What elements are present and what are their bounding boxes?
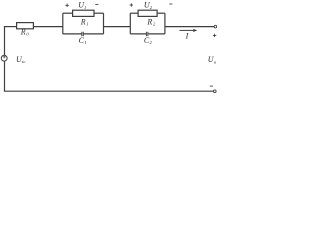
wire block1 to block2 <box>104 26 131 28</box>
svg-text:R: R <box>146 17 152 26</box>
svg-text:1: 1 <box>86 22 88 27</box>
wire left rail lower <box>4 61 6 91</box>
wire bottom branch2 left <box>130 33 146 35</box>
wire bottom branch right <box>84 33 104 35</box>
resistor R1 <box>73 10 94 16</box>
node: block2 left edge <box>129 13 131 34</box>
wire left rail upper <box>4 27 6 56</box>
wire R0 to block1 <box>33 26 62 28</box>
node: block1 left edge <box>62 13 64 34</box>
capacitor C1 <box>82 32 84 36</box>
label - (U2) <box>169 3 172 5</box>
voltage source Usc <box>1 55 7 61</box>
wire bottom branch left <box>63 33 82 35</box>
bottom wire <box>4 90 214 92</box>
wire top branch right <box>94 12 104 14</box>
svg-text:R: R <box>80 17 86 26</box>
svg-text:2: 2 <box>153 22 156 27</box>
terminal bottom right <box>214 90 217 93</box>
label + output <box>213 34 216 37</box>
svg-text:1: 1 <box>84 5 86 10</box>
label + (U1) <box>65 4 68 7</box>
svg-text:2: 2 <box>150 40 153 45</box>
label - output <box>210 85 213 87</box>
label - (U1) <box>95 4 98 6</box>
wire bottom branch2 right <box>148 33 165 35</box>
svg-text:sc: sc <box>22 59 26 64</box>
node: block1 right edge <box>103 13 105 34</box>
wire block2 to output terminal <box>165 26 214 28</box>
svg-text:I: I <box>185 31 189 40</box>
current arrow I <box>180 29 198 32</box>
wire top from source to R0 <box>4 26 17 28</box>
node: block2 right edge <box>164 13 166 34</box>
svg-text:2: 2 <box>150 5 153 10</box>
terminal top right <box>214 25 217 28</box>
resistor R2 <box>138 10 157 16</box>
wire top branch2 right <box>157 12 165 14</box>
svg-text:0: 0 <box>26 32 29 37</box>
resistor R0 <box>17 23 34 29</box>
svg-text:R: R <box>20 27 26 36</box>
wire top branch left <box>63 12 73 14</box>
capacitor C2 <box>146 32 148 36</box>
wire top branch2 left <box>130 12 138 14</box>
label + (U2) <box>130 3 133 6</box>
svg-text:1: 1 <box>84 40 86 45</box>
svg-text:a: a <box>214 59 217 64</box>
